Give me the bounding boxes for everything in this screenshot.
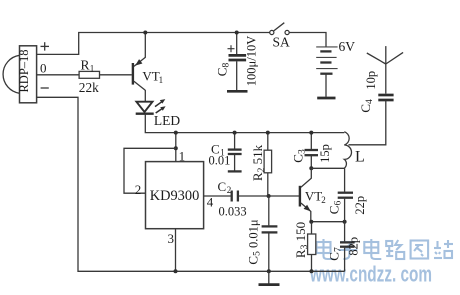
svg-text:1: 1: [179, 149, 186, 164]
capacitor C5: [246, 196, 278, 271]
svg-text:R: R: [81, 58, 90, 73]
svg-text:2: 2: [135, 182, 142, 197]
svg-text:R2 51k: R2 51k: [250, 144, 267, 181]
svg-text:100μ/10V: 100μ/10V: [245, 36, 259, 86]
inductor L: [344, 132, 364, 168]
capacitor C4: [358, 71, 394, 113]
node VT1 emitter on top rail: [143, 31, 147, 35]
svg-text:1: 1: [90, 64, 95, 74]
wire: feedback pin1 to pin2: [124, 148, 176, 193]
ground below C8: [227, 90, 248, 93]
svg-text:LED: LED: [154, 113, 180, 128]
resistor R3: [293, 222, 316, 272]
node C5 bottom: [267, 269, 271, 273]
node C3 top: [309, 131, 313, 135]
ground below battery: [317, 97, 335, 100]
svg-text:C5 0.01μ: C5 0.01μ: [246, 219, 263, 264]
svg-text:www.cndzz. com: www.cndzz. com: [309, 262, 432, 287]
node pin3 bottom: [174, 269, 178, 273]
node pin1 top: [174, 131, 178, 135]
svg-text:3: 3: [168, 231, 175, 246]
wire: R1 to VT1 base: [100, 74, 132, 76]
transistor VT1 (PNP): [133, 57, 163, 90]
wire: LED down, mid rail to coil: [145, 114, 344, 133]
svg-text:0.01: 0.01: [209, 154, 231, 168]
sensor dome lens: [3, 55, 19, 93]
glyph zhan: [434, 240, 453, 258]
svg-text:L: L: [355, 149, 365, 166]
capacitor C6: [327, 168, 368, 221]
node C1 top: [233, 131, 237, 135]
wire: VT1 emitter to top rail: [144, 33, 146, 58]
glyph zi: [338, 242, 357, 259]
antenna: [367, 46, 403, 94]
IC U1 KD9300: [146, 162, 204, 229]
svg-text:0: 0: [40, 61, 47, 76]
resistor R2: [250, 133, 272, 196]
node C8 top: [235, 31, 239, 35]
sensor RDP-18 body: [17, 46, 37, 103]
svg-text:1: 1: [159, 75, 164, 85]
wire: + pin up to top rail, top rail left section: [37, 33, 270, 55]
watermark: [309, 239, 453, 287]
capacitor C7: [326, 222, 360, 272]
label minus pin: [41, 87, 49, 89]
battery 6V: [316, 39, 355, 97]
svg-text:2: 2: [321, 195, 326, 205]
capacitor C8 electrolytic: [215, 33, 259, 91]
svg-text:22k: 22k: [79, 80, 99, 95]
wire: C3 bottom to coil bottom: [311, 167, 344, 169]
svg-text:R3 150: R3 150: [293, 222, 310, 258]
resistor R1: [79, 71, 99, 78]
LED: [136, 99, 181, 128]
svg-text:KD9300: KD9300: [150, 188, 200, 204]
node C6/C7: [343, 220, 347, 224]
svg-text:10p: 10p: [364, 71, 378, 90]
node R3 bottom: [310, 269, 314, 273]
svg-text:15p: 15p: [318, 144, 332, 163]
node emitter/R3: [309, 220, 313, 224]
wire: C4 down to coil tap: [349, 101, 386, 145]
node R2 top: [266, 131, 270, 135]
capacitor C3: [291, 133, 333, 169]
svg-text:C: C: [218, 179, 227, 194]
svg-text:4: 4: [207, 194, 214, 209]
glyph tu: [411, 241, 429, 259]
wire: C2 to VT2 base: [239, 195, 299, 197]
svg-text:0.033: 0.033: [219, 205, 247, 219]
glyph dian2: [364, 239, 381, 259]
capacitor C2: [218, 179, 247, 219]
node C3 bottom / collector: [309, 166, 313, 170]
svg-text:2: 2: [227, 185, 232, 195]
capacitor C1: [209, 133, 242, 172]
switch SA: [270, 23, 290, 50]
wire: SA to battery: [289, 33, 326, 47]
svg-text:22p: 22p: [353, 196, 367, 215]
label + (plus pin): [41, 42, 50, 50]
glyph lu: [386, 240, 404, 259]
wire: 0 pin to R1: [37, 74, 80, 76]
wire: VT1 collector down to LED: [144, 90, 146, 102]
ground below C5: [268, 271, 270, 283]
pin 3: [175, 229, 177, 272]
svg-text:SA: SA: [273, 34, 291, 49]
wire: - pin, left side down, bottom rail: [37, 97, 345, 271]
node pin1 feedback: [174, 146, 178, 150]
svg-text:VT: VT: [142, 69, 159, 84]
transistor VT2 (NPN): [300, 168, 326, 221]
svg-text:82p: 82p: [347, 237, 361, 256]
pin 4: [204, 195, 231, 197]
pin 1: [175, 133, 177, 162]
svg-text:6V: 6V: [339, 39, 356, 54]
glyph dian: [317, 239, 334, 259]
wire: emitter line: [311, 221, 345, 223]
node pin4 line junction: [267, 194, 271, 198]
svg-text:VT: VT: [305, 188, 322, 203]
